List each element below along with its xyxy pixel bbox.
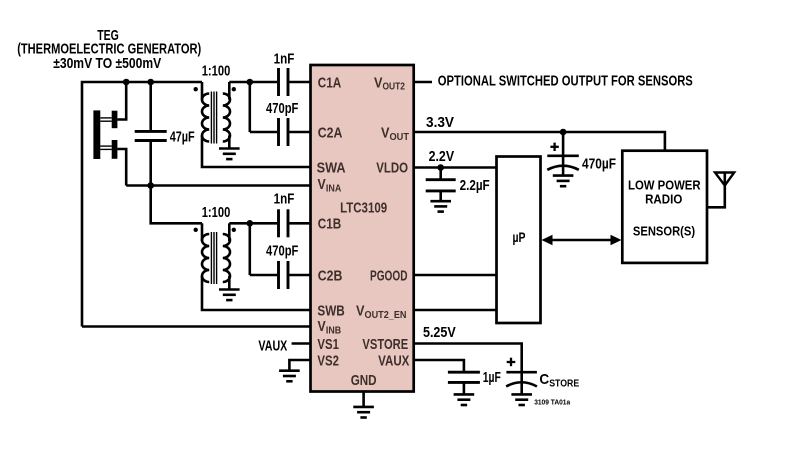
wire VOUT 3.3V rail (414, 132, 665, 151)
svg-text:VSTORE: VSTORE (362, 336, 408, 353)
wire node B down to 470pF row (249, 223, 252, 275)
node junction dot TEG on top rail (123, 79, 130, 86)
ground symbol 470uF (553, 176, 574, 187)
svg-text:VAUX: VAUX (378, 352, 409, 369)
svg-text:µP: µP (513, 229, 526, 245)
ground symbol 1uF (454, 394, 475, 405)
node junction dot 47uF on VINA rail (147, 182, 154, 189)
wire VLDO to uP (414, 166, 497, 169)
capacitor C8 1uF (448, 372, 480, 394)
node junction dot 470uF on 3.3V rail (560, 129, 567, 136)
wire VSTORE to CSTORE (414, 344, 522, 373)
svg-text:VAUX: VAUX (258, 337, 287, 354)
svg-text:LTC3109: LTC3109 (340, 199, 387, 216)
wire VOUT2_EN to uP (414, 309, 497, 312)
svg-text:C2B: C2B (318, 267, 343, 284)
svg-text:2.2V: 2.2V (429, 148, 455, 165)
wire VINB rail (82, 325, 311, 328)
wire node A down to 470pF row (249, 82, 252, 132)
node B junction dot (247, 220, 254, 227)
ground symbol 2.2uF (430, 201, 451, 211)
wire top rail (82, 82, 202, 327)
transformer T2 1:100 (194, 223, 237, 284)
bidirectional arrow uP to radio (542, 235, 622, 246)
wire VINA rail (126, 184, 310, 187)
wire T1 secondary bottom to ground (228, 136, 231, 149)
ground symbol T1 (219, 149, 240, 160)
ground symbol GND (353, 407, 374, 418)
wire VOUT2 stub (414, 81, 432, 84)
wire 47uF junction down to transformer T2 (151, 186, 202, 224)
wire TEG bottom terminal to VINA rail (117, 149, 126, 186)
transformer T1 1:100 (194, 82, 237, 144)
svg-text:±30mV TO ±500mV: ±30mV TO ±500mV (53, 55, 161, 72)
wire PGOOD to uP (414, 274, 497, 277)
wire T1 primary bottom to SWA (202, 136, 311, 168)
wire T2 secondary bottom to ground (228, 276, 231, 290)
polarity plus sign 470uF (550, 143, 558, 151)
ground symbol T2 (219, 290, 240, 301)
svg-text:SWA: SWA (317, 159, 346, 176)
svg-text:5.25V: 5.25V (423, 324, 456, 341)
wire GND pin stub (362, 392, 365, 407)
wire radio to antenna (707, 173, 725, 208)
svg-text:C2A: C2A (318, 124, 343, 141)
TEG thermoelectric generator symbol (93, 110, 117, 159)
wire TEG top terminal to top rail (117, 82, 126, 120)
svg-text:VS1: VS1 (317, 336, 339, 353)
svg-text:2.2µF: 2.2µF (460, 177, 490, 194)
svg-text:1µF: 1µF (483, 369, 501, 386)
capacitor C6 470uF polarized (547, 132, 579, 176)
ground symbol CSTORE (511, 394, 532, 405)
antenna symbol (715, 173, 734, 186)
wire T2 secondary top to node B (229, 222, 250, 225)
svg-text:1:100: 1:100 (202, 204, 231, 221)
IC U1 LTC3109 body (311, 65, 414, 392)
svg-text:47µF: 47µF (170, 128, 195, 145)
svg-text:VS2: VS2 (317, 352, 339, 369)
wire VS1 stub (292, 342, 311, 345)
svg-text:C1A: C1A (318, 74, 342, 91)
svg-text:1nF: 1nF (274, 51, 295, 68)
svg-text:470pF: 470pF (266, 100, 298, 117)
capacitor C9 CSTORE polarized (506, 372, 537, 394)
node junction dot 47uF on top rail (147, 79, 154, 86)
capacitor C5 470pF (B) (250, 261, 311, 289)
svg-text:C1B: C1B (318, 215, 342, 232)
wire T1 secondary top to node A (229, 81, 250, 84)
capacitor C2 1nF (A) (250, 68, 311, 96)
svg-text:RADIO: RADIO (645, 191, 682, 206)
svg-text:3.3V: 3.3V (426, 114, 454, 131)
node junction dot 2.2uF on VLDO (437, 164, 444, 171)
polarity plus sign CSTORE (507, 358, 516, 367)
wire VS2 to ground (289, 360, 310, 371)
capacitor C4 1nF (B) (250, 209, 311, 237)
capacitor C7 2.2uF (426, 168, 456, 202)
microprocessor uP box (497, 157, 541, 324)
svg-text:3109 TA01a: 3109 TA01a (534, 398, 571, 407)
svg-text:1nF: 1nF (274, 191, 295, 208)
ground symbol VS2 (279, 371, 300, 382)
svg-text:LOW POWER: LOW POWER (628, 178, 701, 193)
svg-text:1:100: 1:100 (202, 63, 231, 80)
svg-text:470µF: 470µF (582, 156, 616, 173)
node A junction dot (247, 79, 254, 86)
radio box LOW POWER RADIO SENSOR(S) (622, 151, 707, 263)
wire T2 primary bottom to SWB (202, 276, 311, 310)
svg-text:PGOOD: PGOOD (370, 267, 408, 284)
capacitor C1 47uF (135, 82, 167, 186)
wire VAUX to 1uF (414, 360, 464, 372)
svg-text:SWB: SWB (317, 302, 345, 319)
svg-text:SENSOR(S): SENSOR(S) (633, 223, 695, 238)
svg-text:OPTIONAL SWITCHED OUTPUT FOR S: OPTIONAL SWITCHED OUTPUT FOR SENSORS (438, 73, 693, 90)
capacitor C3 470pF (A) (250, 118, 311, 146)
svg-text:470pF: 470pF (266, 242, 298, 259)
svg-text:VLDO: VLDO (376, 160, 408, 177)
svg-text:GND: GND (351, 372, 377, 389)
